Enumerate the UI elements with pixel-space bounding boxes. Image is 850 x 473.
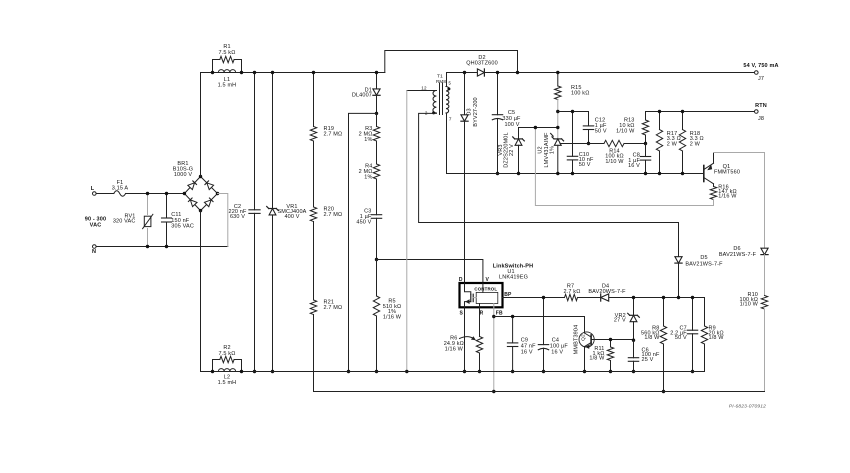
junction VR3 bottom [517, 172, 520, 175]
svg-text:D5: D5 [700, 255, 707, 261]
capacitor C4 100 uF 16 V [538, 298, 568, 372]
IC U1 LNK419EG LinkSwitch-PH [459, 263, 533, 316]
resistor R17 3.3 Ohm 2 W [656, 112, 681, 174]
junction C8 bottom [644, 172, 647, 175]
junction C12 bottom at ref line [587, 142, 590, 145]
junction bridge top [199, 175, 202, 178]
svg-text:BAV21WS-7-F: BAV21WS-7-F [685, 261, 723, 267]
svg-text:J7: J7 [758, 76, 764, 82]
junction C9 bottom [511, 370, 514, 373]
capacitor C10 10 nF 50 V [567, 112, 594, 174]
wire T1 pin 2 to D5 [419, 113, 679, 222]
svg-text:25 V: 25 V [642, 357, 654, 363]
junction FB at feedback rail [492, 390, 495, 393]
junction VR3 line at U2 line [556, 126, 559, 129]
wire bridge right to N rail [218, 194, 228, 247]
svg-text:2 W: 2 W [690, 141, 701, 147]
svg-text:1/16 W: 1/16 W [718, 194, 737, 200]
wire R21 down to feedback rail [313, 315, 315, 392]
svg-text:FB: FB [496, 311, 503, 317]
junction R6 bottom [478, 370, 481, 373]
junction R18 bottom [681, 172, 684, 175]
junction C10 bottom [571, 172, 574, 175]
junction S pin at rail [463, 370, 466, 373]
junction R18 top [681, 110, 684, 113]
junction C2 top [253, 71, 256, 74]
svg-text:450 V: 450 V [356, 219, 371, 225]
svg-text:2.7 MΩ: 2.7 MΩ [324, 212, 343, 218]
svg-text:1%: 1% [550, 146, 556, 154]
wire B+ top rail [201, 72, 385, 74]
wire Q1 emitter to D6 [714, 153, 765, 249]
resistor R9 20 kOhm 1/8 W [701, 298, 724, 372]
varistor RV1 320 VAC [113, 194, 153, 247]
resistor R8 560 kOhm 1/8 W [641, 298, 667, 392]
junction VR1 bottom [271, 370, 274, 373]
wire U2 ref line [560, 143, 604, 145]
junction C11 top [165, 192, 168, 195]
svg-text:305 VAC: 305 VAC [171, 223, 194, 229]
svg-text:QH03TZ600: QH03TZ600 [466, 61, 498, 67]
svg-text:1.5 mH: 1.5 mH [218, 380, 237, 386]
svg-text:BAV20WS-7-F: BAV20WS-7-F [588, 289, 626, 295]
resistor R18 3.3 Ohm 2 W [679, 112, 703, 174]
transistor Q1 FMMT560 [704, 153, 740, 184]
svg-text:16 V: 16 V [551, 350, 563, 356]
capacitor C9 47 nF 16 V [507, 317, 536, 372]
wire S pin to return rail [464, 307, 466, 371]
wire T1 pin 12 to return rail [407, 90, 437, 92]
junction R15 bottom RTN node [556, 110, 559, 113]
node J8 RTN terminal [755, 103, 767, 122]
svg-text:J8: J8 [758, 116, 764, 122]
resistor R15 100 kOhm [555, 73, 590, 139]
transistor Q2 MMBT3904 [573, 325, 633, 372]
junction C3 R5 node to V pin [375, 258, 378, 261]
junction R1 L1 left [211, 71, 214, 74]
svg-text:BYV27-200: BYV27-200 [473, 97, 479, 126]
junction R2 L2 left [211, 370, 214, 373]
svg-text:320 VAC: 320 VAC [113, 219, 136, 225]
wire T1 pin 7 down to secondary rail [446, 113, 448, 173]
svg-text:100 kΩ: 100 kΩ [571, 91, 589, 97]
svg-text:400 V: 400 V [284, 214, 299, 220]
junction D3 top [463, 71, 466, 74]
svg-text:1%: 1% [364, 137, 372, 143]
svg-text:50 V: 50 V [579, 162, 591, 168]
resistor R19 2.7 MOhm [310, 73, 342, 142]
junction C10 top [571, 110, 574, 113]
junction bridge bottom [199, 209, 202, 212]
svg-text:2.7 MΩ: 2.7 MΩ [324, 305, 343, 311]
junction R11 bottom [609, 370, 612, 373]
diode D5 BAV21WS-7-F [675, 223, 723, 298]
svg-text:PI-6823-070912: PI-6823-070912 [729, 403, 766, 409]
junction VR1 top [271, 71, 274, 74]
resistor R3 2 MOhm 1% [359, 113, 380, 143]
svg-text:R: R [480, 311, 484, 317]
svg-text:MMBT3904: MMBT3904 [573, 325, 579, 355]
capacitor C8 1 uF 16 V [628, 144, 651, 174]
junction VR2 anode C6 Q2 base node [632, 339, 635, 342]
junction D1 cathode node [375, 112, 378, 115]
zener VR2 27 V [614, 298, 639, 341]
svg-text:1.5 mH: 1.5 mH [218, 83, 237, 89]
junction R17 top [658, 110, 661, 113]
svg-text:U2: U2 [538, 146, 544, 153]
svg-text:1/10 W: 1/10 W [605, 159, 624, 165]
svg-text:1/8 W: 1/8 W [644, 335, 660, 341]
wire secondary return rail [447, 173, 704, 175]
capacitor C3 1 uF 450 V [356, 179, 381, 260]
fuse F1 3.15 A [112, 180, 129, 196]
svg-text:7.5 kΩ: 7.5 kΩ [219, 50, 236, 56]
junction R8 at feedback rail [662, 390, 665, 393]
wire V pin line [377, 260, 483, 293]
junction bridge left [183, 192, 186, 195]
svg-text:54 V, 750 mA: 54 V, 750 mA [743, 63, 778, 69]
junction bridge right [216, 192, 219, 195]
svg-text:1%: 1% [364, 175, 372, 181]
svg-text:CONTROL: CONTROL [474, 287, 497, 292]
junction R8 top [662, 296, 665, 299]
junction C7 bottom [691, 370, 694, 373]
svg-text:V: V [485, 277, 489, 283]
svg-text:7: 7 [449, 117, 452, 122]
capacitor C5 330 uF 100 V [492, 73, 521, 174]
svg-text:1000 V: 1000 V [174, 172, 193, 178]
junction RV1 top [146, 192, 149, 195]
svg-text:1/16 W: 1/16 W [383, 314, 402, 320]
resistor R7 2.7 kOhm [564, 284, 581, 301]
svg-text:27 V: 27 V [614, 318, 626, 324]
junction D1 top [375, 71, 378, 74]
svg-text:2.7 kΩ: 2.7 kΩ [564, 289, 581, 295]
resistor R4 2 MOhm 1% [359, 141, 380, 181]
svg-text:7.5 kΩ: 7.5 kΩ [219, 351, 236, 357]
wire FB branch to Q2 collector [494, 317, 585, 334]
svg-text:1/16 W: 1/16 W [445, 346, 464, 352]
svg-text:S: S [460, 311, 464, 317]
junction C5 top [496, 71, 499, 74]
bridge rectifier BR1 B10S-G 1000 V [173, 161, 218, 211]
junction T1 pin 12 at return rail [405, 370, 408, 373]
svg-text:BAV21WS-7-F: BAV21WS-7-F [719, 252, 757, 258]
wire feedback rail [314, 391, 765, 393]
junction C11 bottom [165, 245, 168, 248]
svg-text:1/10 W: 1/10 W [616, 128, 635, 134]
resistor R1 7.5 kOhm [213, 44, 242, 73]
svg-text:50 V: 50 V [675, 335, 687, 341]
resistor R16 147 kOhm 1/16 W [710, 184, 737, 206]
junction bypass branch at return rail [347, 370, 350, 373]
svg-text:RTN: RTN [755, 103, 767, 109]
svg-text:L: L [91, 186, 95, 192]
zener VR3 DZ2S220M0L 22 V [498, 128, 558, 174]
svg-text:16 V: 16 V [628, 163, 640, 169]
TVS diode VR1 SMCJ400A 400 V [267, 73, 307, 372]
svg-text:100 V: 100 V [504, 122, 519, 128]
resistor R20 2.7 MOhm [310, 141, 342, 222]
wire bridge top to B+ rail [200, 73, 202, 177]
svg-text:FMMT560: FMMT560 [714, 169, 740, 175]
junction R16 branch at VR3 line [534, 126, 537, 129]
wire T1 pin 5 up to output line [446, 73, 448, 87]
wire bridge bottom to return rail [200, 211, 202, 372]
resistor R2 7.5 kOhm [213, 345, 242, 371]
junction D5 anode at BP line [677, 296, 680, 299]
node T1 secondary dot pin 5 [447, 87, 450, 90]
inductor L1 1.5 mH [218, 70, 237, 89]
junction R19 top [312, 71, 315, 74]
wire D1 cathode to bypass branch [349, 113, 377, 371]
svg-text:D6: D6 [733, 246, 740, 252]
wire B+ jog over transformer [385, 51, 518, 73]
svg-text:2.7 MΩ: 2.7 MΩ [324, 131, 343, 137]
junction C4 top [542, 296, 545, 299]
junction R11 top [609, 338, 612, 341]
junction B+ jog at output line [516, 71, 519, 74]
junction C7 top [691, 296, 694, 299]
junction R1 L1 right [240, 71, 243, 74]
junction R13 R14 C8 node [644, 142, 647, 145]
junction RV1 bottom [146, 245, 149, 248]
svg-text:1/8 W: 1/8 W [709, 335, 725, 341]
wire output line [447, 72, 478, 74]
wire primary return rail [201, 371, 705, 373]
wire BP pin line [503, 297, 565, 299]
resistor R6 24.9 kOhm 1/16 W select on test [444, 307, 483, 371]
svg-text:N: N [92, 249, 96, 255]
resistor R5 510 kOhm 1% 1/16 W [373, 260, 402, 372]
junction C2 bottom [253, 370, 256, 373]
capacitor C2 220 nF 630 V [228, 73, 260, 372]
capacitor C6 100 nF 25 V [628, 340, 660, 371]
node J7 output terminal 54 V 750 mA [743, 63, 778, 82]
junction R2 L2 right [240, 370, 243, 373]
svg-text:12: 12 [421, 85, 427, 90]
resistor R11 1 kOhm 1/8 W [589, 340, 613, 372]
junction FB node [492, 315, 495, 318]
junction VR2 top [632, 296, 635, 299]
capacitor C7 2.2 uF 50 V [670, 298, 698, 372]
svg-text:D: D [459, 277, 463, 283]
diode D6 BAV21WS-7-F [719, 246, 768, 296]
svg-text:DL4007: DL4007 [352, 93, 372, 99]
svg-text:630 V: 630 V [230, 214, 245, 220]
junction R5 bottom [375, 370, 378, 373]
wire R16 to RTN node [535, 128, 713, 206]
junction R17 bottom [658, 172, 661, 175]
capacitor C11 150 nF 305 VAC [162, 194, 194, 247]
svg-text:2 W: 2 W [667, 141, 678, 147]
wire RTN node segment [558, 111, 589, 113]
diode D3 BYV27-200 [461, 73, 479, 284]
svg-text:RM8: RM8 [436, 79, 446, 84]
wire FB pin down to feedback rail [493, 307, 495, 391]
svg-text:D3: D3 [467, 108, 473, 115]
junction U2 anode at rail [556, 172, 559, 175]
resistor R21 2.7 MOhm [310, 222, 342, 315]
junction C6 bottom [632, 370, 635, 373]
junction C5 bottom [496, 172, 499, 175]
svg-text:50 V: 50 V [595, 128, 607, 134]
diode D4 BAV20WS-7-F [588, 284, 626, 302]
junction Q2 emitter at rail [583, 370, 586, 373]
svg-text:LNK419EG: LNK419EG [499, 274, 528, 280]
node L input terminal [91, 186, 96, 195]
resistor R14 100 kOhm 1/10 W [604, 140, 624, 165]
transformer T1 RM8 [421, 74, 452, 122]
capacitor C12 1 uF 50 V [583, 112, 607, 144]
diode D1 DL4007 [352, 73, 380, 114]
wire N line [96, 246, 228, 248]
svg-text:22 V: 22 V [509, 144, 515, 156]
inductor L2 1.5 mH [218, 369, 237, 387]
svg-text:16 V: 16 V [521, 350, 533, 356]
diode D2 QH03TZ600 [466, 55, 498, 76]
wire RTN rail to J8 [646, 111, 755, 113]
node T1 primary dot pin 2 [432, 111, 435, 114]
svg-text:VAC: VAC [90, 223, 102, 229]
junction C9 top [511, 315, 514, 318]
svg-text:3.15 A: 3.15 A [112, 185, 129, 191]
resistor R13 10 kOhm 1/10 W [616, 112, 649, 144]
junction C4 bottom [542, 370, 545, 373]
svg-text:1/8 W: 1/8 W [589, 355, 605, 361]
wire L line to bridge [96, 193, 114, 195]
junction R15 top [556, 71, 559, 74]
node N input terminal [92, 245, 96, 256]
svg-text:1/10 W: 1/10 W [740, 301, 759, 307]
shunt regulator U2 LMV431AIMF 1% [538, 132, 564, 174]
resistor R10 100 kOhm 1/10 W [740, 292, 768, 391]
svg-text:Q2: Q2 [580, 334, 586, 341]
label input voltage 90-300 VAC [85, 217, 106, 229]
